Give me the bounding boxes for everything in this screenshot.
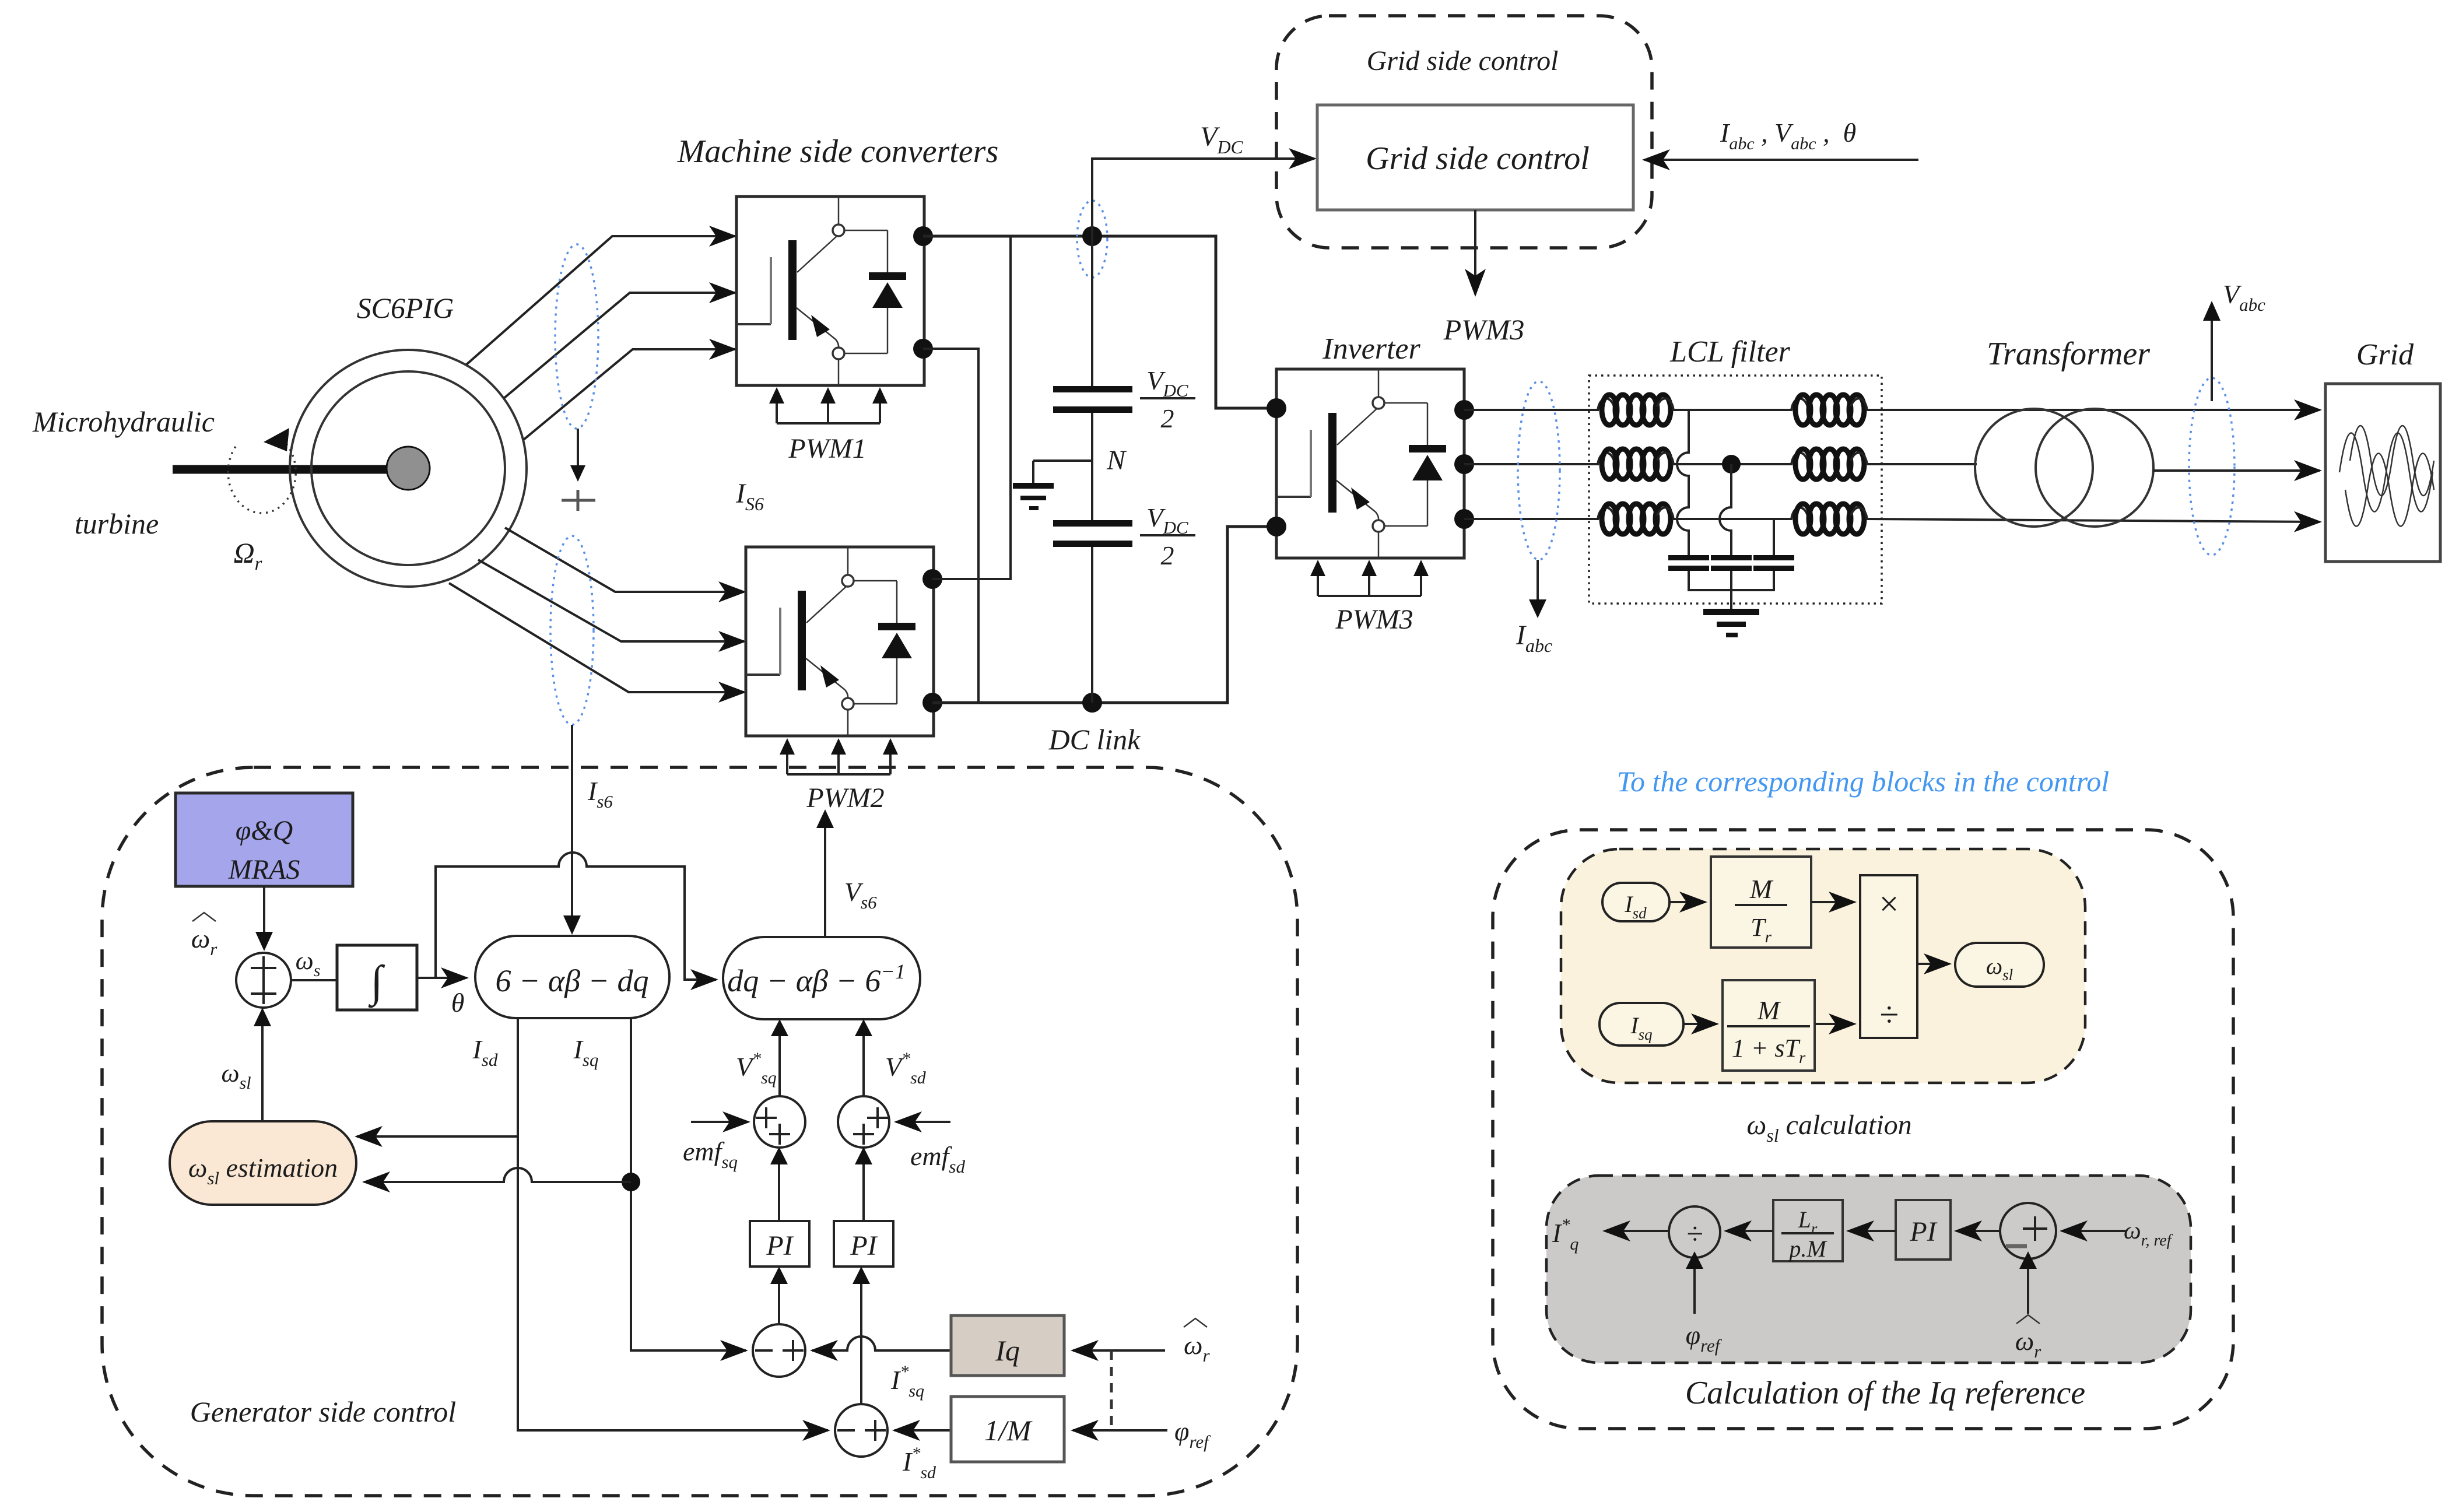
sensor plus mark: [562, 490, 595, 511]
grid sine waves: [2339, 433, 2433, 512]
svg-text:PWM2: PWM2: [806, 783, 884, 813]
block M over Tr: [1711, 857, 1811, 948]
label omega_r hat right: [1184, 1318, 1210, 1366]
svg-text:Iabc , Vabc , θ: Iabc , Vabc , θ: [1720, 118, 1856, 153]
svg-text:1 + sTr: 1 + sTr: [1732, 1034, 1806, 1067]
svg-text:SC6PIG: SC6PIG: [357, 292, 454, 324]
wire S2 to PI1: [778, 1283, 780, 1324]
arrow M1sTr to div: [1815, 1023, 1854, 1025]
PWM3 output arrow from control: [1474, 210, 1476, 294]
rotation arc dotted: [228, 439, 296, 513]
arrow Lr to div: [1726, 1230, 1773, 1232]
capacitor C1: [1053, 386, 1132, 392]
svg-text:6 − αβ − dq: 6 − αβ − dq: [495, 963, 648, 998]
svg-text:PI: PI: [766, 1230, 794, 1261]
svg-text:turbine: turbine: [75, 507, 159, 540]
svg-text:MRAS: MRAS: [228, 854, 300, 885]
inductor L1c: [1598, 504, 1674, 534]
svg-text:VDC: VDC: [1146, 366, 1188, 401]
svg-text:p.M: p.M: [1787, 1236, 1827, 1262]
wire E1 to dq block V_sq*: [778, 1027, 781, 1096]
wire inverter out b: [1464, 463, 1598, 465]
svg-text:÷: ÷: [1879, 995, 1899, 1034]
grid box: [2325, 384, 2440, 562]
label omega_r hat grey: [2015, 1315, 2041, 1362]
I_sd wire down: [518, 1018, 828, 1430]
omega_sl calculation box: [1561, 849, 2085, 1083]
wire LCL to transformer c: [1867, 519, 2134, 521]
wire C2 to minus rail: [1091, 547, 1093, 703]
wire E2 to dq block V_sd*: [862, 1027, 865, 1096]
omega_sl estimation block: [170, 1121, 356, 1205]
wire transformer to grid c: [2134, 521, 2320, 522]
svg-text:M: M: [1757, 995, 1781, 1025]
wire C1 to N: [1091, 413, 1093, 523]
omega_sl arrow to S1: [261, 1018, 264, 1121]
svg-text:IS6: IS6: [735, 478, 764, 514]
wire S3 to PI2: [860, 1283, 862, 1404]
ground LCL wire: [1730, 571, 1732, 610]
wire stator phase 3 lower: [449, 583, 744, 692]
wire omega_r to Iq: [1073, 1349, 1165, 1352]
svg-text:Vabc: Vabc: [2223, 279, 2265, 315]
arrow I_sq to M1sTr: [1683, 1023, 1717, 1025]
converter 1 module: [736, 197, 924, 385]
inverter output node c: [1454, 509, 1474, 529]
svg-text:I*sq: I*sq: [890, 1362, 924, 1401]
svg-text:1/M: 1/M: [984, 1414, 1033, 1447]
arrow PI to Lr: [1848, 1230, 1896, 1232]
capacitor bus: [1689, 571, 1774, 590]
svg-text:÷: ÷: [1686, 1218, 1703, 1251]
wire transformer to grid a: [2134, 409, 2320, 411]
grid side control dashed box: [1276, 16, 1652, 248]
inverter module: [1276, 369, 1464, 558]
inverter output node b: [1454, 454, 1474, 474]
converter 1 output node +: [913, 226, 933, 246]
block 6-ab-dq: [475, 936, 669, 1018]
svg-text:ωr: ωr: [191, 924, 218, 959]
svg-text:VDC: VDC: [1146, 503, 1188, 538]
svg-text:PI: PI: [850, 1230, 878, 1261]
wire transformer to grid b: [2153, 469, 2320, 472]
svg-text:Isd: Isd: [472, 1034, 498, 1070]
generator inner circle: [311, 371, 505, 565]
shunt drop phase c: [1773, 519, 1775, 555]
svg-text:ωr: ωr: [1184, 1330, 1210, 1366]
svg-text:Generator side control: Generator side control: [190, 1395, 456, 1428]
wire 1/M to S3: [894, 1429, 951, 1432]
node DC minus junction: [1082, 693, 1102, 713]
svg-text:Isq: Isq: [573, 1034, 599, 1070]
node DC plus junction: [1082, 226, 1102, 246]
svg-text:ωsl: ωsl: [221, 1059, 251, 1093]
label V_DC/2 lower: [1140, 503, 1195, 570]
summer E2: [838, 1096, 889, 1148]
integrator block: [337, 945, 417, 1010]
summer S4: [2000, 1203, 2056, 1259]
wire S1 to integrator: [291, 979, 337, 981]
shunt drop phase a with hops: [1677, 410, 1689, 555]
Iq reference grey box: [1546, 1176, 2191, 1363]
PWM2 arrows: [780, 738, 898, 774]
generator side control dashed box: [102, 767, 1297, 1496]
I_s6 wire down to control: [571, 725, 573, 924]
svg-text:PWM3: PWM3: [1335, 604, 1413, 635]
I_sq wire down: [631, 1018, 746, 1350]
node I_sq tap: [622, 1173, 640, 1191]
inductor L1a: [1598, 395, 1674, 425]
svg-text:Grid side control: Grid side control: [1367, 45, 1559, 76]
arrow MRAS to summer: [263, 886, 265, 933]
MRAS block: [176, 793, 353, 886]
svg-text:To the corresponding blocks in: To the corresponding blocks in the contr…: [1617, 765, 2109, 798]
inductor L2a: [1791, 395, 1867, 425]
svg-text:V*sq: V*sq: [736, 1049, 777, 1087]
measurement ellipse inverter blue: [1518, 381, 1560, 560]
svg-text:Iq: Iq: [995, 1334, 1020, 1367]
wire I_sd to estimation: [357, 1135, 518, 1138]
PWM1 arrows: [769, 387, 888, 423]
current sensor arrow I_S6: [577, 429, 579, 466]
svg-text:emfsd: emfsd: [910, 1141, 965, 1177]
svg-text:ωs: ωs: [296, 946, 321, 980]
inverter input node +: [1267, 398, 1286, 418]
svg-text:Grid: Grid: [2356, 338, 2414, 371]
wire inverter out c: [1464, 518, 1598, 520]
svg-text:VDC: VDC: [1200, 121, 1243, 157]
grid side control block: [1317, 105, 1633, 210]
inductor L2b: [1791, 449, 1867, 479]
wire inverter out a: [1464, 409, 1598, 411]
converter 2 output node -: [922, 693, 942, 713]
summer S3: [835, 1404, 888, 1457]
svg-text:Calculation of the Iq referenc: Calculation of the Iq reference: [1685, 1375, 2085, 1411]
arrow MTr to mult: [1811, 901, 1854, 903]
mult div block: [1860, 875, 1917, 1038]
I_abc sensor arrow: [1537, 560, 1539, 601]
transformer secondary circle: [2036, 409, 2153, 527]
wire LCL to transformer b: [1867, 463, 1977, 465]
wire stator phase 3 upper: [524, 349, 735, 440]
omega_r hat up arrow: [2027, 1267, 2029, 1314]
wire Iq to S2 with hop: [812, 1336, 951, 1350]
emf_sq input arrow: [691, 1121, 748, 1123]
measurement ellipse upper blue: [555, 244, 598, 429]
svg-text:2: 2: [1161, 541, 1174, 570]
arrow div to I_q*: [1605, 1230, 1669, 1232]
wire DC plus rail: [923, 236, 1276, 408]
1/M block: [951, 1397, 1064, 1462]
svg-text:PI: PI: [1909, 1216, 1937, 1247]
summer S2: [753, 1324, 805, 1377]
svg-text:Grid side control: Grid side control: [1366, 141, 1590, 177]
svg-text:Is6: Is6: [587, 776, 613, 812]
inverter output node a: [1454, 400, 1474, 420]
wire LCL to transformer a: [1867, 409, 2134, 411]
wire DC minus rail: [932, 527, 1276, 703]
svg-text:×: ×: [1877, 885, 1901, 923]
generator SC6PIG outer circle: [290, 350, 527, 587]
Iq block: [951, 1315, 1064, 1376]
LCL dotted box: [1589, 376, 1882, 604]
label omega_r hat left: [191, 913, 218, 959]
svg-text:φref: φref: [1174, 1416, 1211, 1452]
inductor L1b: [1598, 449, 1674, 479]
wire integrator to 6ab-dq: [417, 977, 466, 979]
svg-text:LCL filter: LCL filter: [1669, 335, 1790, 369]
ground DC link: [1013, 461, 1092, 510]
svg-text:V*sd: V*sd: [885, 1049, 927, 1087]
capacitor C1 chain wire: [1091, 236, 1093, 386]
block M over 1+sTr: [1723, 980, 1815, 1071]
wire stator phase 1 lower: [505, 528, 744, 592]
svg-text:θ: θ: [451, 988, 465, 1018]
wire LCL row2 mid: [1674, 463, 1791, 465]
svg-text:emfsq: emfsq: [683, 1136, 738, 1172]
transformer primary circle: [1975, 409, 2093, 527]
summer E1: [754, 1096, 805, 1148]
turbine shaft: [173, 465, 408, 474]
svg-text:Vs6: Vs6: [844, 877, 877, 913]
summer S1: [236, 953, 291, 1008]
outer dashed box: [1493, 830, 2233, 1429]
svg-text:Transformer: Transformer: [1987, 336, 2150, 372]
capacitor Cf b: [1711, 555, 1752, 560]
inductor L2c: [1791, 504, 1867, 534]
converter 1 output node -: [913, 339, 933, 359]
svg-text:Microhydraulic: Microhydraulic: [32, 405, 215, 438]
svg-text:PWM1: PWM1: [788, 433, 866, 464]
label V_DC/2 upper: [1140, 366, 1195, 433]
I_sq input oval: [1599, 1003, 1683, 1046]
svg-text:Inverter: Inverter: [1322, 332, 1420, 366]
input arrow Iabc Vabc theta: [1644, 159, 1918, 161]
svg-text:I*sd: I*sd: [902, 1444, 936, 1482]
capacitor Cf c: [1753, 555, 1794, 560]
wire LCL row3 mid: [1674, 518, 1791, 520]
svg-text:N: N: [1106, 445, 1127, 476]
svg-text:Iabc: Iabc: [1516, 620, 1552, 656]
wire I_sq to estimation with hop: [364, 1168, 631, 1182]
svg-text:ωsl calculation: ωsl calculation: [1746, 1110, 1911, 1146]
svg-text:φ&Q: φ&Q: [236, 815, 293, 846]
wire V_DC sense: [1092, 159, 1314, 236]
measurement ellipse grid blue: [2189, 378, 2234, 555]
measurement ellipse lower blue: [550, 536, 594, 725]
svg-text:dq − αβ − 6−1: dq − αβ − 6−1: [727, 960, 905, 998]
wire PI1 to E1: [778, 1163, 780, 1221]
PWM3 arrows inverter: [1310, 560, 1429, 596]
PI2 block: [834, 1221, 893, 1267]
svg-text:Machine side converters: Machine side converters: [677, 134, 998, 170]
wire converter2 plus to top rail: [932, 236, 1011, 579]
emf_sd input arrow: [896, 1121, 950, 1123]
arrow I_sd to MTr: [1669, 901, 1705, 903]
capacitor Cf a: [1668, 555, 1709, 560]
svg-text:Ωr: Ωr: [233, 536, 262, 574]
V_abc sense arrow: [2211, 320, 2213, 401]
wire PI2 to E2: [862, 1163, 865, 1221]
PI block grey: [1896, 1200, 1951, 1260]
dashed link omega_r phi_ref: [1110, 1350, 1113, 1430]
capacitor C2: [1053, 520, 1132, 527]
svg-text:DC link: DC link: [1048, 723, 1141, 756]
arrow omega_rref to S4: [2062, 1230, 2125, 1232]
block Lr over pM: [1773, 1200, 1843, 1262]
svg-text:2: 2: [1161, 404, 1174, 433]
converter 2 module: [746, 547, 934, 736]
arrow S4 to PI: [1956, 1230, 2000, 1232]
V_s6 arrow to PWM2: [824, 819, 826, 937]
block dq-ab-6: [723, 937, 920, 1019]
arrow to omega_sl oval: [1917, 963, 1949, 965]
svg-text:M: M: [1749, 874, 1774, 904]
I_sd input oval: [1602, 883, 1669, 921]
wire stator phase 1 upper: [466, 236, 735, 364]
wire stator phase 2 lower: [478, 560, 744, 641]
shunt drop phase b with hop: [1720, 464, 1731, 555]
wire LCL row1 mid: [1674, 409, 1791, 411]
wire phi_ref to 1/M: [1073, 1429, 1167, 1432]
converter 2 output node +: [922, 569, 942, 589]
PI1 block: [750, 1221, 809, 1267]
wire stator phase 2 upper: [504, 293, 735, 398]
svg-text:PWM3: PWM3: [1443, 313, 1525, 346]
node shunt b: [1722, 455, 1741, 473]
generator hub hatched: [387, 447, 430, 490]
svg-text:∫: ∫: [369, 957, 385, 1008]
V_DC sense ellipse blue: [1077, 201, 1107, 278]
ground LCL: [1703, 609, 1759, 637]
divider circle: [1669, 1206, 1720, 1258]
omega_sl output oval: [1955, 943, 2044, 987]
inverter input node -: [1267, 517, 1286, 536]
theta feedback wire with hop: [436, 853, 716, 980]
wire converter1 minus to bottom rail: [923, 349, 978, 703]
phi_ref up arrow: [1693, 1267, 1696, 1314]
